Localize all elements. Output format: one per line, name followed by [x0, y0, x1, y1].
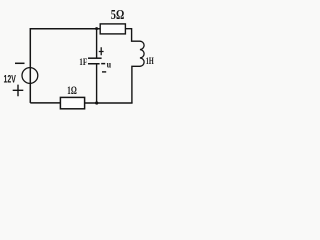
- wire from 5-ohm to inductor top: [125, 29, 140, 42]
- capacitor polarity plus: [99, 47, 104, 55]
- svg-text:u: u: [107, 59, 112, 70]
- capacitor C 1F top plate: [88, 57, 102, 59]
- svg-text:5Ω: 5Ω: [111, 6, 125, 22]
- inductor L 1H coil: [140, 41, 144, 66]
- svg-text:12V: 12V: [4, 73, 17, 85]
- node junction bottom: [95, 101, 98, 104]
- capacitor polarity minus: [102, 71, 106, 73]
- svg-text:1H: 1H: [146, 56, 155, 67]
- svg-text:1Ω: 1Ω: [67, 85, 77, 98]
- wire top: from top-left corner to 5-ohm resistor: [30, 28, 100, 30]
- svg-text:1F: 1F: [79, 57, 87, 67]
- source polarity plus: [13, 85, 24, 97]
- capacitor C 1F bottom plate: [88, 63, 105, 65]
- wire bottom-left: [30, 102, 60, 104]
- wire from inductor bottom to bottom wire: [132, 66, 141, 103]
- voltage source V1 circle: [22, 68, 38, 84]
- wire left vertical (through source): [29, 28, 31, 103]
- resistor R 1-ohm box: [60, 97, 84, 108]
- node junction top: [95, 27, 98, 30]
- resistor R 5-ohm box: [100, 24, 125, 34]
- wire bottom-right: [85, 102, 133, 104]
- source polarity minus: [15, 62, 25, 64]
- wire capacitor branch upper: [96, 29, 98, 58]
- wire capacitor branch lower: [96, 64, 98, 103]
